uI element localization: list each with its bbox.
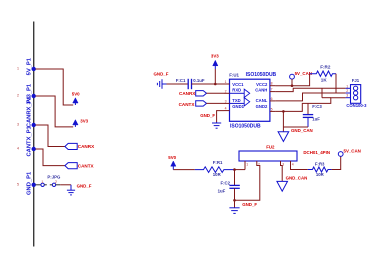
capacitor C1 — [188, 79, 191, 89]
svg-text:VCC1: VCC1 — [232, 82, 244, 87]
capacitor C2 — [229, 170, 239, 208]
J1 pin 3 — [346, 97, 351, 99]
svg-text:DCH01_4PIN: DCH01_4PIN — [303, 150, 330, 155]
U1 pin 7 stub — [270, 91, 276, 93]
svg-text:ISO1050DUB: ISO1050DUB — [230, 123, 261, 129]
svg-text:2: 2 — [17, 94, 19, 98]
svg-text:1uF: 1uF — [218, 189, 226, 194]
U1 internal buffer 2 — [230, 98, 250, 106]
svg-text:2: 2 — [225, 89, 227, 93]
svg-text:F:U1: F:U1 — [229, 73, 239, 78]
svg-text:CANRX: CANRX — [179, 91, 196, 96]
svg-text:5V_CAN: 5V_CAN — [295, 71, 312, 76]
power 5V_CAN (bottom) — [338, 149, 361, 157]
svg-text:GND1: GND1 — [232, 104, 244, 109]
wire 5V0 to R1 — [173, 169, 195, 171]
U1 pin 8 stub — [270, 85, 276, 87]
svg-text:RXD: RXD — [232, 88, 241, 93]
U1 pin 2 stub — [224, 92, 230, 94]
jumper pad 2 — [52, 183, 55, 186]
svg-text:GND_P1: GND_P1 — [27, 171, 33, 195]
svg-text:3: 3 — [282, 163, 284, 167]
U1 pin 6 stub — [270, 100, 276, 102]
svg-text:CANL: CANL — [256, 98, 268, 103]
svg-text:5V0: 5V0 — [72, 92, 80, 97]
svg-text:4: 4 — [225, 107, 227, 111]
svg-text:1: 1 — [225, 80, 227, 84]
resistor R2 — [310, 71, 336, 76]
port CANRX (left) — [65, 143, 95, 149]
power 5V0 arrow — [72, 92, 80, 105]
svg-text:FJ1: FJ1 — [352, 78, 360, 83]
wire C1 to U1 pin1 — [192, 83, 225, 85]
ground GND_F (bottom section) — [229, 202, 257, 213]
svg-text:CANH: CANH — [255, 88, 267, 93]
J1 pin 1 — [346, 87, 351, 89]
U2 pin 2 stub — [235, 161, 260, 200]
svg-text:10R: 10R — [316, 172, 325, 177]
svg-text:1: 1 — [41, 180, 43, 184]
U1 pin 1 stub — [224, 83, 230, 85]
svg-text:GND_F: GND_F — [77, 184, 92, 189]
svg-text:1K: 1K — [321, 77, 328, 82]
resistor R1 — [195, 167, 234, 173]
svg-text:1uF: 1uF — [312, 117, 320, 122]
svg-text:CANRX_P1: CANRX_P1 — [27, 95, 33, 127]
P1 pin 5 junction dot — [32, 183, 36, 187]
P1 pin 3 junction dot — [32, 123, 36, 127]
svg-text:0.1uF: 0.1uF — [193, 78, 205, 83]
svg-text:GND_CAN: GND_CAN — [291, 128, 313, 133]
svg-text:CON100-3: CON100-3 — [346, 103, 367, 108]
svg-text:GND_F: GND_F — [154, 72, 169, 77]
port CANTX (to U1) — [179, 101, 207, 107]
svg-text:3V3: 3V3 — [211, 53, 219, 58]
svg-text:F:C3: F:C3 — [312, 104, 322, 109]
svg-text:CANRX: CANRX — [78, 144, 95, 149]
P1 pin 2 junction dot — [32, 94, 36, 98]
svg-text:1: 1 — [246, 163, 248, 167]
svg-text:5V_CAN: 5V_CAN — [344, 149, 361, 154]
svg-text:1: 1 — [17, 67, 19, 71]
U2 pin 4 stub — [291, 161, 308, 170]
power 5V0 arrow (bottom) — [168, 155, 176, 170]
svg-text:1: 1 — [346, 84, 348, 88]
U1 internal buffer 1 — [230, 89, 250, 97]
resistor R3 — [308, 167, 332, 172]
svg-text:GND2: GND2 — [256, 104, 268, 109]
op-amp/IC U1 ISO1050DUB body — [230, 79, 270, 121]
svg-text:2: 2 — [346, 89, 348, 93]
svg-text:TXD: TXD — [232, 98, 240, 103]
capacitor C3 — [303, 103, 313, 127]
junction 3V3/VCC1 — [214, 83, 217, 86]
power 5V_CAN (top) — [290, 71, 312, 86]
svg-text:3V3: 3V3 — [80, 119, 88, 124]
J1 pin 2 — [346, 92, 351, 94]
svg-text:4: 4 — [17, 147, 19, 151]
svg-text:CANTX: CANTX — [179, 102, 196, 107]
wire U1 pin4 to GND_F — [217, 111, 224, 122]
svg-text:F:R3: F:R3 — [315, 161, 325, 166]
junction C2 bottom / U2 pin2 — [233, 199, 236, 202]
wire C3 bottom to GND_CAN — [283, 126, 308, 128]
U2 pin 1 stub — [244, 161, 246, 170]
P1 pin 1 junction dot — [32, 67, 36, 71]
svg-text:P:JPG: P:JPG — [47, 175, 61, 180]
connector P1 bus — [33, 22, 35, 247]
svg-text:2: 2 — [258, 163, 260, 167]
connector J1 body — [351, 85, 361, 104]
jumper pad 1 — [36, 184, 41, 186]
svg-text:VCC2: VCC2 — [256, 82, 268, 87]
svg-text:2: 2 — [55, 180, 57, 184]
svg-text:F:R1: F:R1 — [213, 160, 223, 165]
wire CANH net — [275, 88, 345, 91]
wire 5V_P1 to 5V0 — [36, 69, 74, 105]
junction GND2 branch — [282, 110, 285, 113]
wire R3 to 5V_CAN — [332, 156, 341, 169]
svg-text:3: 3 — [346, 94, 348, 98]
U2 pin 3 stub — [281, 161, 283, 181]
power 3V3 arrow (top) — [211, 53, 219, 84]
svg-text:3: 3 — [225, 99, 227, 103]
U1 pin 3 stub — [224, 102, 230, 104]
svg-text:F:C2: F:C2 — [221, 180, 231, 185]
wire 3V3_P1 to 3V3 — [36, 96, 74, 127]
DC-DC module U2 body — [239, 151, 297, 161]
port CANRX (to U1) — [179, 91, 207, 96]
wire R1 to U2 pin1 — [234, 169, 245, 171]
svg-text:GND_F: GND_F — [200, 113, 215, 118]
svg-text:5V_P1: 5V_P1 — [27, 57, 33, 75]
wire GND_F to C1 — [167, 83, 189, 85]
svg-text:7: 7 — [271, 88, 273, 92]
P1 pin 4 junction dot — [32, 147, 36, 151]
ground GND_CAN (near C3) — [278, 128, 313, 142]
ground GND_CAN (under U2) — [277, 176, 307, 192]
svg-text:5: 5 — [17, 183, 19, 187]
wire CANTX_P1 to port — [36, 149, 65, 166]
ground GND_F (P1 section) — [67, 184, 92, 195]
svg-text:8: 8 — [271, 82, 273, 86]
port CANTX (left) — [65, 163, 95, 169]
wire VCC2 net — [275, 74, 309, 86]
wire GND_CAN to J1 pin3 — [275, 98, 345, 112]
U1 pin 4 stub — [224, 110, 230, 112]
svg-text:CANTX: CANTX — [78, 163, 95, 168]
junction C2 top — [233, 168, 236, 171]
ground GND_F (left of C1) — [154, 72, 169, 89]
svg-text:ISO1050DUB: ISO1050DUB — [246, 72, 277, 78]
wire CANL net — [275, 93, 345, 101]
U1 pin 5 stub — [270, 110, 276, 112]
wire R2 right to CANL net — [335, 74, 337, 93]
svg-text:4: 4 — [292, 163, 294, 167]
svg-text:10R: 10R — [213, 172, 222, 177]
svg-text:F:C1: F:C1 — [176, 78, 186, 83]
svg-text:3: 3 — [17, 123, 19, 127]
svg-text:FU2: FU2 — [266, 144, 275, 149]
wire CANRX_P1 to port — [36, 125, 65, 147]
svg-text:GND_F: GND_F — [242, 202, 257, 207]
junction 5V_CAN stem — [291, 84, 294, 87]
svg-text:5: 5 — [271, 107, 273, 111]
wire CANTX to U1 pin3 — [207, 102, 225, 104]
svg-text:GND_CAN: GND_CAN — [286, 176, 308, 181]
svg-text:5V0: 5V0 — [168, 155, 176, 160]
wire CANH drop to J1 pin3 row — [321, 88, 323, 97]
wire jumper to GND_F — [60, 184, 71, 186]
svg-text:F:R2: F:R2 — [320, 64, 331, 69]
svg-text:CANTX_P1: CANTX_P1 — [27, 125, 33, 156]
svg-text:6: 6 — [271, 97, 273, 101]
ground GND_F (below U1) — [200, 113, 221, 128]
power 3V3 arrow (left) — [73, 119, 89, 127]
wire CANRX to U1 pin2 — [207, 92, 225, 94]
